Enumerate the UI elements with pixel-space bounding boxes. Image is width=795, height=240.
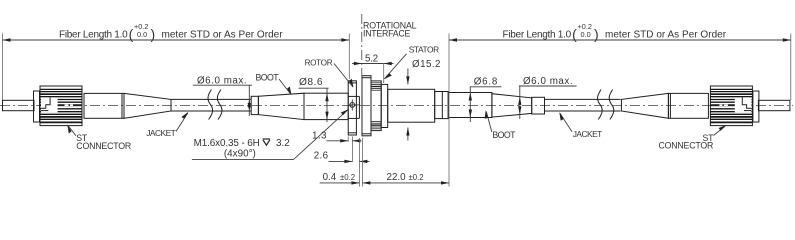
svg-text:CONNECTOR: CONNECTOR	[76, 141, 131, 151]
svg-text:5.2: 5.2	[365, 54, 378, 65]
disc bottom band	[362, 133, 371, 135]
left fiber length dimension line	[3, 39, 350, 41]
svg-text:0.4: 0.4	[323, 172, 337, 183]
svg-text:BOOT: BOOT	[492, 130, 516, 140]
right cable break marks	[598, 90, 603, 120]
svg-text:0.0: 0.0	[137, 30, 147, 39]
svg-text:Fiber Length 1.0: Fiber Length 1.0	[503, 30, 572, 41]
hole horizontal centerline	[349, 104, 360, 106]
spline grooves top	[371, 83, 381, 90]
svg-text:2.6: 2.6	[314, 151, 329, 162]
left ST connector	[3, 86, 172, 126]
svg-text:meter STD or As Per Order: meter STD or As Per Order	[162, 30, 284, 41]
bolt hole circle	[350, 103, 355, 108]
plate top band	[348, 82, 356, 84]
BOOT leader left	[279, 79, 291, 95]
svg-text:22.0: 22.0	[387, 172, 407, 183]
svg-text:meter STD or As Per Order: meter STD or As Per Order	[605, 30, 727, 41]
stator splined collar	[371, 81, 381, 131]
svg-text:0.0: 0.0	[581, 30, 591, 39]
M1.6 leader diagonal	[294, 110, 348, 160]
disc top band	[362, 77, 371, 79]
svg-text:Ø8.6: Ø8.6	[299, 77, 323, 88]
stator front disc	[362, 76, 371, 136]
5.2 dimension	[352, 63, 362, 65]
svg-text:ROTOR: ROTOR	[305, 58, 333, 67]
FORJ left boot collar	[251, 96, 258, 114]
svg-text:Ø6.8: Ø6.8	[474, 77, 498, 88]
svg-text:INTERFACE: INTERFACE	[363, 29, 410, 39]
FORJ right boot taper	[492, 94, 532, 117]
left cable jacket	[171, 98, 251, 100]
JACKET leader right	[560, 113, 572, 132]
main horizontal centerline	[0, 104, 793, 106]
stator output section O6.8	[448, 93, 492, 118]
svg-text:): )	[151, 26, 156, 42]
FORJ left boot taper	[258, 93, 304, 119]
ST leader left	[68, 126, 76, 136]
svg-text:Ø15.2: Ø15.2	[412, 59, 441, 70]
svg-text:±0.2: ±0.2	[409, 173, 424, 182]
depth symbol	[263, 139, 271, 145]
left cable break marks	[208, 90, 213, 120]
hub silhouette lines across plate	[348, 95, 359, 97]
right cable jacket	[545, 98, 621, 100]
0.4 / 22.0 extension lines	[358, 138, 360, 187]
FORJ right boot collar	[532, 97, 545, 114]
svg-text:(: (	[572, 26, 577, 42]
svg-text:JACKET: JACKET	[146, 128, 175, 138]
spline grooves bottom	[371, 121, 381, 128]
right fiber length extension line left	[448, 34, 450, 187]
rotational interface plane line	[361, 14, 363, 136]
svg-text:STATOR: STATOR	[409, 44, 439, 54]
JACKET leader left	[176, 113, 188, 132]
svg-text:1.3: 1.3	[312, 130, 327, 141]
stator mid section	[435, 92, 449, 119]
svg-text:(: (	[129, 26, 134, 42]
stator ring (O15.2)	[381, 84, 388, 127]
right ST connector (mirrored)	[621, 86, 790, 126]
ROTOR leader	[334, 64, 353, 88]
left fiber length extension line right	[348, 34, 350, 80]
svg-text:): )	[594, 26, 599, 42]
svg-text:Ø6.0 max.: Ø6.0 max.	[523, 76, 573, 87]
left fiber length extension line left	[2, 34, 4, 101]
svg-text:JACKET: JACKET	[573, 129, 602, 139]
1.3 extension lines	[347, 137, 349, 143]
svg-text:3.2: 3.2	[276, 138, 290, 149]
svg-text:BOOT: BOOT	[256, 73, 280, 83]
right fiber length dimension line	[449, 39, 791, 41]
stator body	[388, 89, 435, 122]
right fiber length extension line right	[790, 34, 792, 101]
M1.6 leader shelf	[192, 158, 294, 160]
rotor hub end face	[358, 96, 360, 118]
svg-text:Fiber Length 1.0: Fiber Length 1.0	[59, 30, 128, 41]
rotor flange plate	[348, 81, 356, 135]
ST leader right	[714, 126, 726, 136]
svg-text:±0.2: ±0.2	[340, 173, 355, 182]
FORJ left boot body	[304, 93, 348, 119]
svg-text:CONNECTOR: CONNECTOR	[658, 141, 713, 151]
hole vertical centerline	[351, 99, 353, 110]
BOOT leader right	[486, 112, 492, 133]
plate bottom band	[348, 132, 356, 134]
stator mid divider	[441, 92, 443, 119]
svg-text:(4x90°): (4x90°)	[224, 148, 256, 159]
STATOR leader	[384, 54, 406, 79]
